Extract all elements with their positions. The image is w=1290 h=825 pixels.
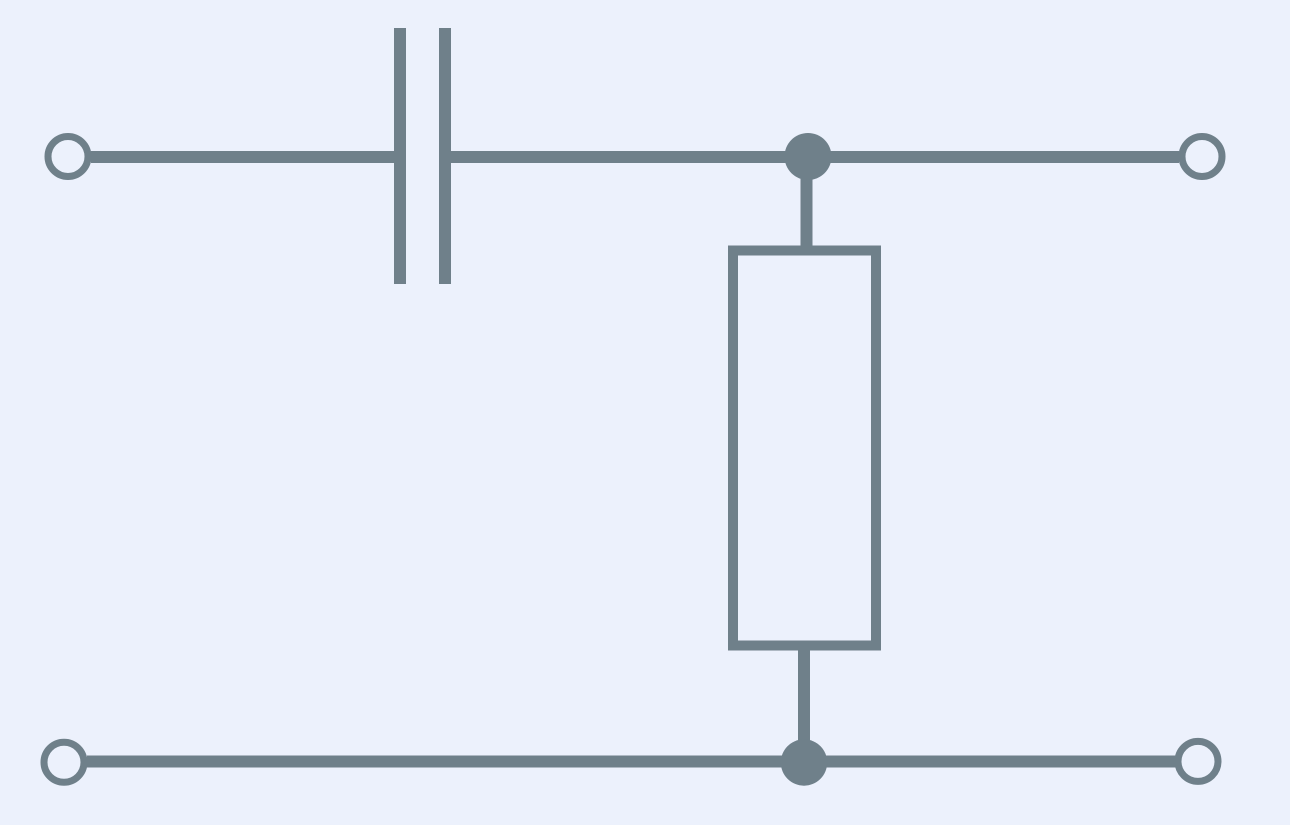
capacitor C1 bbox=[394, 28, 451, 284]
wire resistor to bottom node bbox=[798, 645, 810, 762]
node bottom junction bbox=[781, 739, 827, 785]
wire bottom rail bbox=[87, 756, 1176, 768]
terminal top-left bbox=[48, 137, 88, 177]
terminal bottom-right bbox=[1178, 741, 1218, 781]
wire top rail left segment bbox=[91, 151, 395, 163]
terminal top-right bbox=[1182, 137, 1222, 177]
node top junction bbox=[785, 133, 832, 180]
wire top rail right segment bbox=[451, 151, 1179, 163]
resistor R1 bbox=[733, 251, 876, 646]
wire junction to resistor bbox=[801, 157, 813, 250]
terminal bottom-left bbox=[44, 742, 84, 782]
